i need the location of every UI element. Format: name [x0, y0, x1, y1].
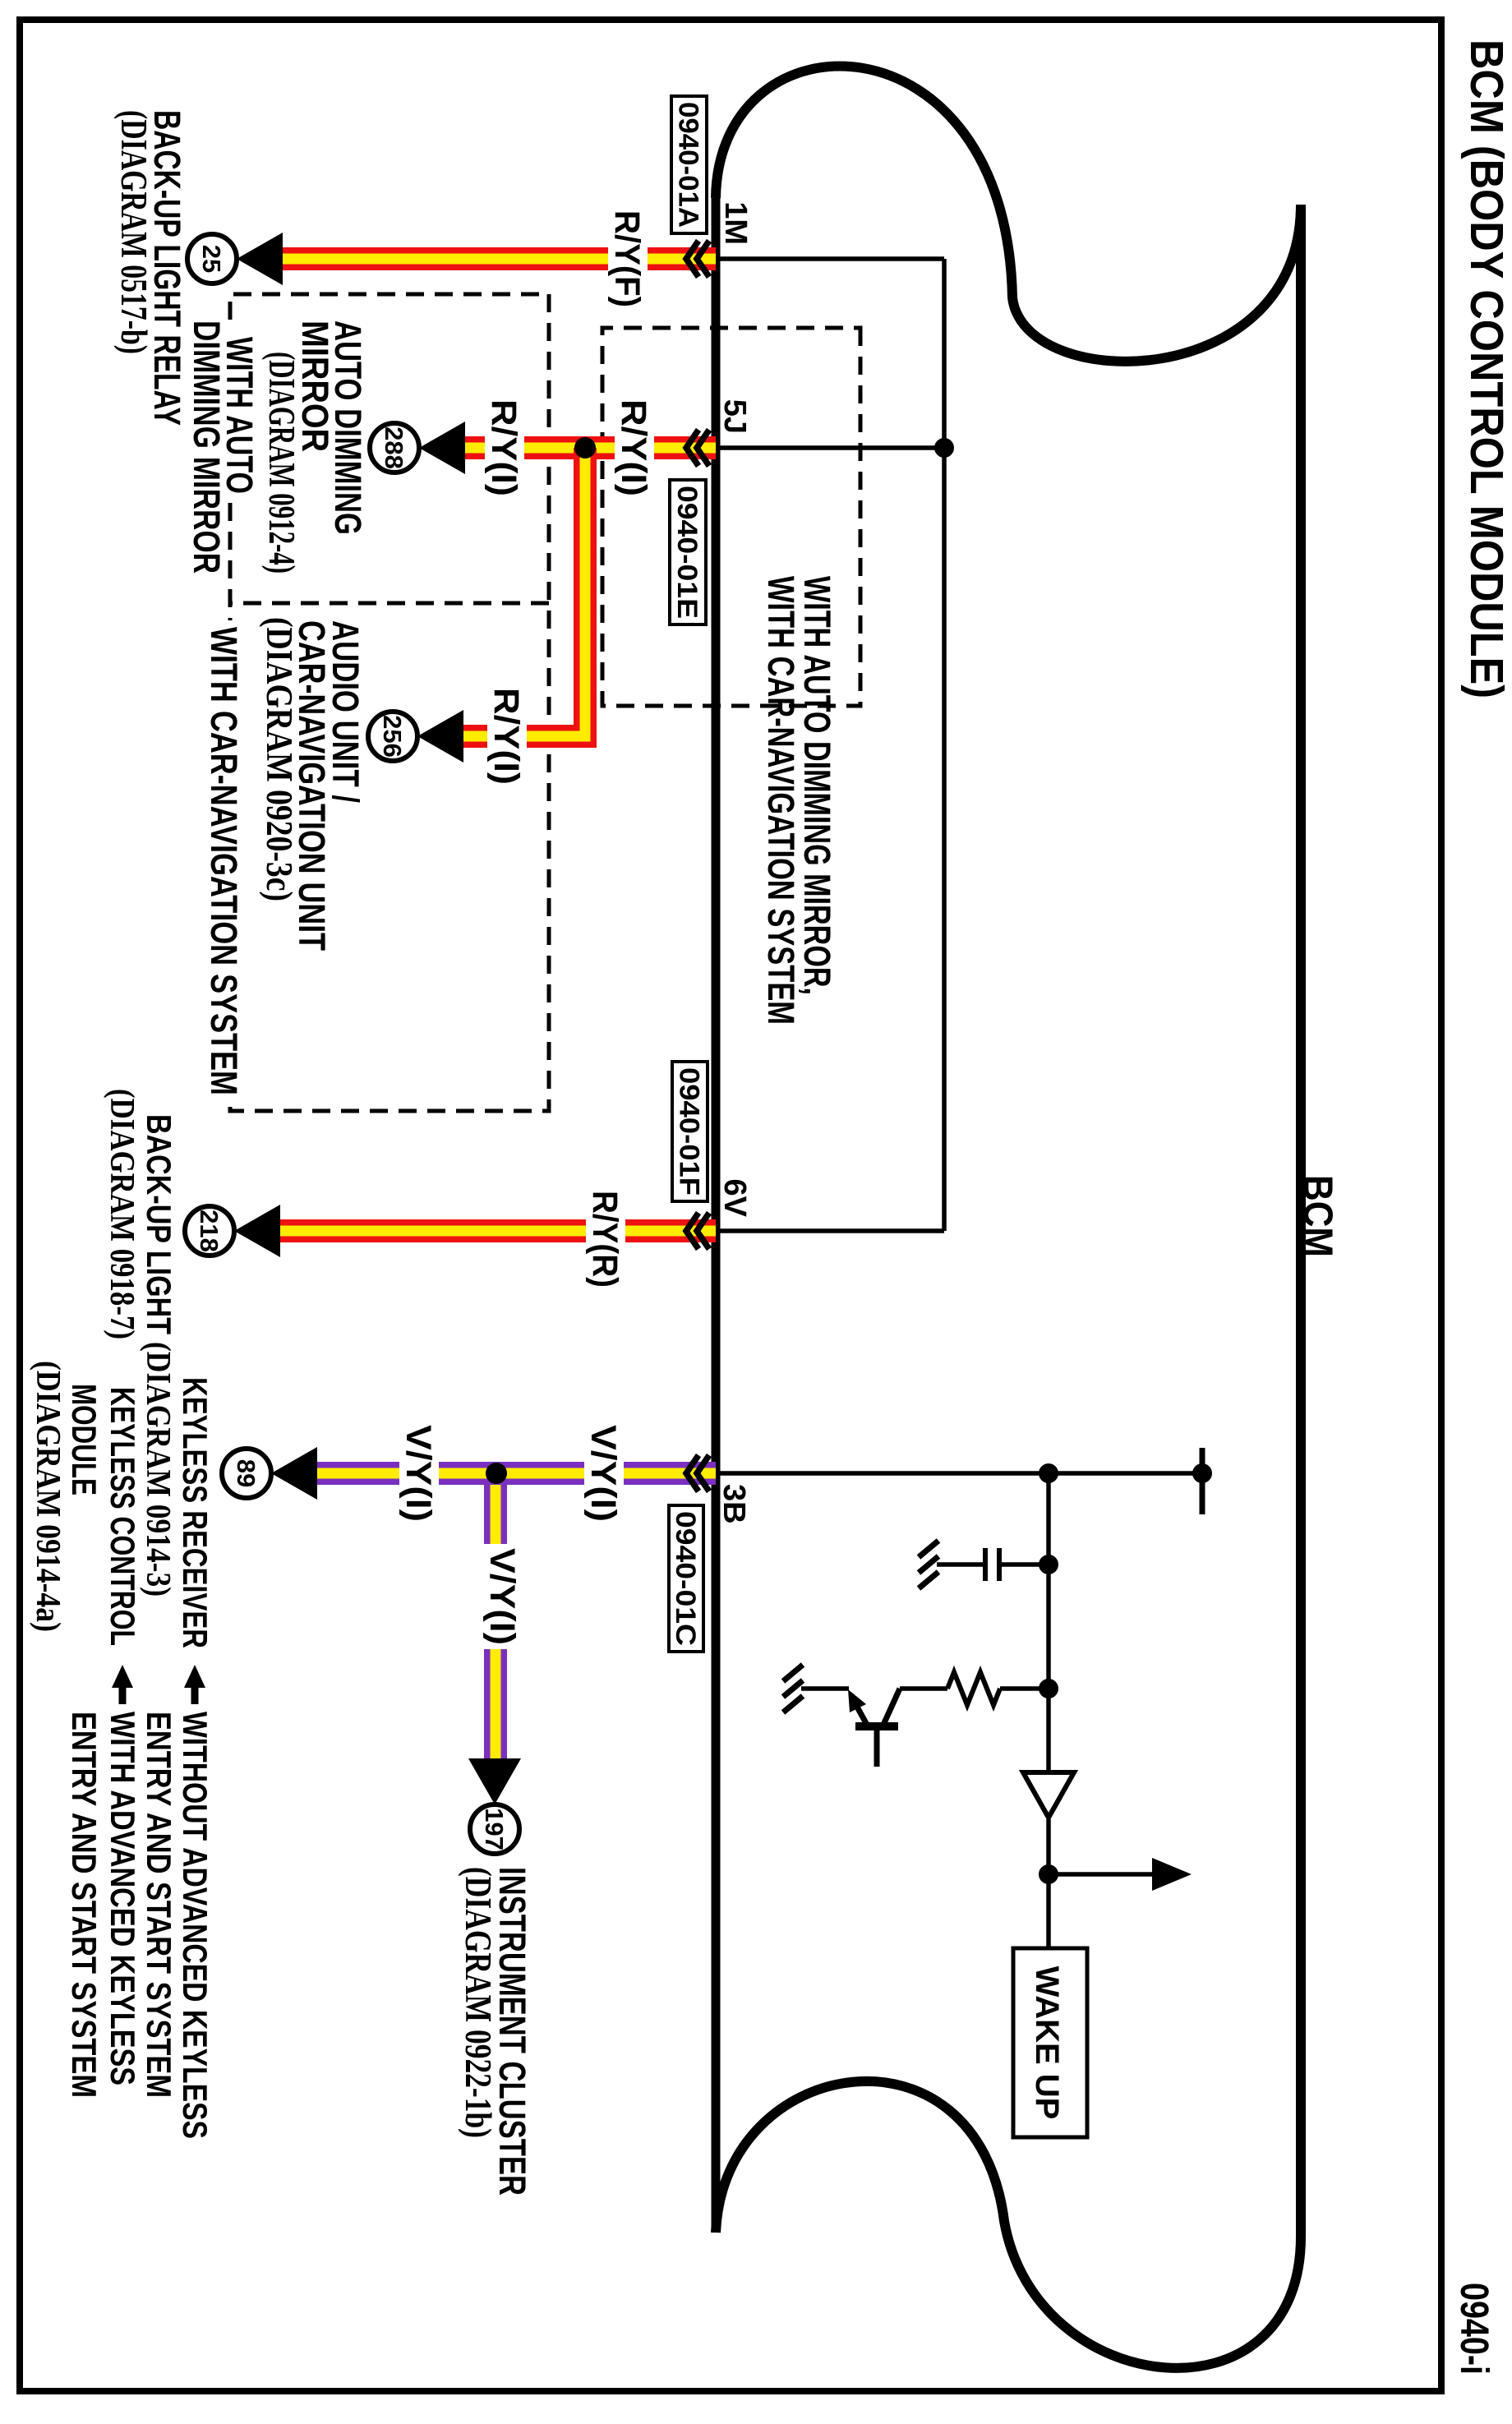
svg-text:(DIAGRAM 0920-3c): (DIAGRAM 0920-3c): [259, 617, 300, 901]
svg-text:0940-01C: 0940-01C: [670, 1511, 701, 1646]
svg-text:R/Y(I): R/Y(I): [484, 399, 523, 496]
svg-text:218: 218: [195, 1210, 224, 1252]
svg-text:WITH AUTO DIMMING MIRROR,: WITH AUTO DIMMING MIRROR,: [796, 576, 838, 995]
svg-text:0940-01A: 0940-01A: [673, 102, 704, 228]
svg-text:5J: 5J: [717, 399, 752, 434]
svg-text:R/Y(F): R/Y(F): [607, 210, 647, 307]
svg-text:KEYLESS RECEIVER: KEYLESS RECEIVER: [176, 1377, 214, 1648]
svg-text:197: 197: [480, 1808, 509, 1850]
svg-text:WITH CAR-NAVIGATION SYSTEM: WITH CAR-NAVIGATION SYSTEM: [203, 627, 245, 1095]
svg-text:ENTRY AND START SYSTEM: ENTRY AND START SYSTEM: [65, 1712, 104, 2098]
svg-text:0940-01E: 0940-01E: [671, 486, 703, 619]
svg-text:256: 256: [378, 715, 407, 758]
svg-text:BCM: BCM: [1295, 1175, 1341, 1257]
svg-text:89: 89: [232, 1459, 260, 1487]
svg-text:WITH ADVANCED KEYLESS: WITH ADVANCED KEYLESS: [104, 1712, 142, 2085]
svg-text:MODULE: MODULE: [65, 1384, 104, 1495]
svg-text:WAKE UP: WAKE UP: [1029, 1966, 1065, 2120]
svg-text:BACK-UP LIGHT: BACK-UP LIGHT: [140, 1114, 178, 1334]
svg-text:V/Y(I): V/Y(I): [482, 1548, 522, 1645]
svg-text:6V: 6V: [717, 1179, 752, 1218]
svg-text:KEYLESS CONTROL: KEYLESS CONTROL: [104, 1387, 142, 1646]
svg-text:(DIAGRAM 0914-3): (DIAGRAM 0914-3): [139, 1342, 177, 1597]
svg-text:(DIAGRAM 0912-4): (DIAGRAM 0912-4): [261, 352, 302, 574]
svg-text:R/Y(R): R/Y(R): [585, 1191, 625, 1288]
svg-text:0940-i: 0940-i: [1452, 2283, 1496, 2375]
svg-text:WITH CAR-NAVIGATION SYSTEM: WITH CAR-NAVIGATION SYSTEM: [760, 576, 802, 1025]
svg-text:(DIAGRAM 0922-1b): (DIAGRAM 0922-1b): [458, 1867, 499, 2138]
svg-text:0940-01F: 0940-01F: [674, 1067, 705, 1196]
svg-text:1M: 1M: [718, 201, 753, 245]
svg-text:R/Y(I): R/Y(I): [486, 688, 526, 785]
svg-text:(DIAGRAM 0918-7): (DIAGRAM 0918-7): [103, 1089, 141, 1339]
svg-text:R/Y(I): R/Y(I): [614, 399, 653, 496]
svg-text:V/Y(I): V/Y(I): [399, 1425, 438, 1522]
svg-text:DIMMING MIRROR: DIMMING MIRROR: [186, 320, 228, 574]
svg-text:WITHOUT ADVANCED KEYLESS: WITHOUT ADVANCED KEYLESS: [176, 1712, 214, 2139]
svg-text:288: 288: [380, 426, 408, 469]
svg-text:3B: 3B: [717, 1484, 751, 1524]
svg-text:BCM (BODY CONTROL MODULE): BCM (BODY CONTROL MODULE): [1460, 39, 1512, 698]
svg-text:ENTRY AND START SYSTEM: ENTRY AND START SYSTEM: [140, 1712, 178, 2098]
svg-text:25: 25: [197, 245, 226, 273]
svg-text:V/Y(I): V/Y(I): [583, 1425, 623, 1522]
svg-text:(DIAGRAM 0914-4a): (DIAGRAM 0914-4a): [29, 1361, 67, 1632]
svg-text:(DIAGRAM 0517-b): (DIAGRAM 0517-b): [113, 110, 154, 354]
